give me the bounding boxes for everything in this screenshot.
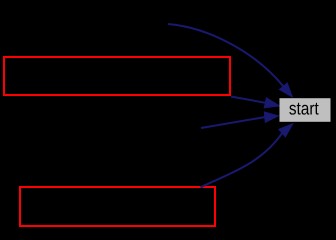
edge A curve from top-left to start <box>168 24 283 86</box>
edge D arrowhead <box>279 124 293 137</box>
edge B arrowhead <box>264 98 279 108</box>
edge C line from middle-left to start <box>201 117 265 128</box>
edge A arrowhead <box>279 83 292 97</box>
node box 1 (red outline, upper) <box>4 57 230 95</box>
node box 2 (red outline, lower) <box>20 187 215 226</box>
edge D curve from box2 to start <box>201 133 283 187</box>
node start (grey filled) <box>280 98 331 122</box>
edge C arrowhead <box>264 112 278 123</box>
node start label <box>289 103 318 115</box>
edge B line from box1 to start <box>231 97 265 103</box>
